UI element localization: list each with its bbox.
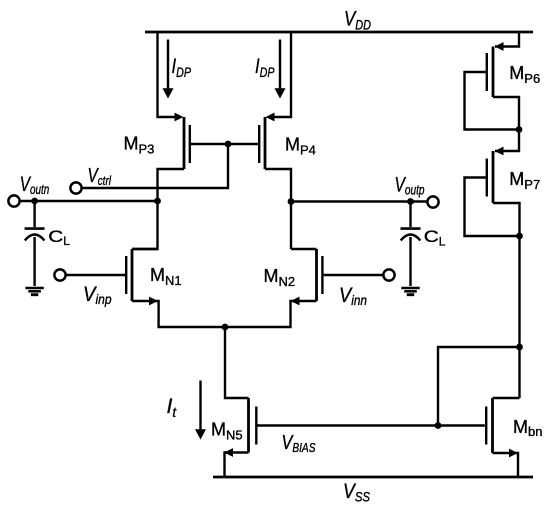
- current label IDP left: [172, 55, 192, 80]
- ground left: [25, 288, 43, 295]
- power rail VSS: [213, 476, 533, 479]
- transistor MN5: [224, 398, 256, 457]
- transistor MP6: [487, 42, 504, 97]
- label MP6: [509, 63, 540, 86]
- terminal Vinn: [383, 269, 394, 280]
- wire MP7 drain to Mbn drain: [493, 203, 520, 398]
- junction MP6 drain node: [516, 126, 523, 133]
- wire Mbn drain lead: [493, 397, 520, 399]
- wire MN2 drain lead: [291, 248, 317, 250]
- label MP7: [509, 169, 540, 192]
- junction Voutn-CL: [31, 198, 38, 205]
- label Voutp: [395, 174, 425, 198]
- label VBIAS: [282, 432, 317, 455]
- terminal Vctrl: [70, 182, 81, 193]
- wire MN2 source to tail: [225, 301, 317, 327]
- capacitor CL left: [25, 201, 45, 286]
- wire VBIAS MN5 gate to Mbn gate: [258, 424, 485, 426]
- capacitor CL right: [401, 202, 421, 287]
- value label CL left: [48, 228, 70, 248]
- label MN2: [264, 266, 296, 289]
- wire Vctrl to gates: [82, 144, 229, 188]
- junction MP7 drain node: [516, 233, 523, 240]
- wire MP4 drain to Voutp node: [265, 169, 291, 202]
- power rail VDD: [145, 31, 533, 34]
- wire MP3 gate to MP4 gate: [191, 143, 258, 145]
- wire tail to MN5 drain: [225, 327, 249, 398]
- label Vinp: [83, 283, 112, 307]
- wire VBIAS to Mbn drain: [438, 347, 520, 426]
- wire Voutp node to MN2 drain: [290, 202, 292, 250]
- wire Vinn to MN2 gate: [324, 274, 384, 276]
- wire Voutp rail: [291, 200, 428, 202]
- label Vctrl: [88, 165, 112, 188]
- wire Voutn rail: [19, 200, 157, 202]
- transistor MN1: [126, 249, 158, 305]
- junction Voutn-branch: [154, 198, 161, 205]
- wire MP6 drain: [493, 97, 519, 130]
- wire MP3 source to VDD: [158, 32, 176, 117]
- wire MP3 drain to Voutn node: [158, 169, 185, 201]
- label Mbn: [513, 417, 542, 439]
- label MN5: [211, 420, 243, 443]
- net label VDD: [344, 8, 371, 33]
- ground right: [401, 288, 419, 295]
- junction gates node: [225, 141, 232, 148]
- junction Voutp-CL: [407, 198, 414, 205]
- transistor MP4: [259, 113, 274, 169]
- current label IDP right: [255, 55, 275, 80]
- label MP3: [124, 134, 155, 157]
- label Vinn: [339, 284, 367, 308]
- wire MN1 drain lead: [132, 248, 158, 250]
- current arrow IDP right: [275, 40, 286, 99]
- junction Mbn drain link: [516, 344, 523, 351]
- junction tail node: [222, 324, 229, 331]
- wire MP6 source to VDD: [495, 32, 519, 47]
- transistor MP3: [175, 113, 190, 169]
- terminal Vinp: [54, 269, 65, 280]
- wire Mbn source to VSS: [493, 453, 519, 477]
- label MN1: [150, 265, 182, 288]
- wire MP7 source lead: [495, 130, 519, 152]
- current arrow IDP left: [163, 40, 174, 99]
- wire MN1 source to tail: [132, 301, 225, 327]
- junction VBIAS node: [435, 422, 442, 429]
- transistor Mbn: [486, 398, 518, 457]
- wire Vinp to MN1 gate: [65, 274, 125, 276]
- label MP4: [285, 135, 316, 158]
- wire Voutn node to MN1 drain: [132, 201, 158, 249]
- junction Voutp-branch: [288, 198, 295, 205]
- value label CL right: [424, 228, 446, 248]
- current arrow It: [195, 381, 206, 440]
- transistor MN2: [291, 249, 323, 305]
- wire MP7 gate loop: [465, 178, 520, 237]
- transistor MP7: [487, 147, 504, 203]
- net label VSS: [343, 480, 370, 505]
- wire MN5 source to VSS: [225, 453, 249, 478]
- wire MP4 source to VDD: [274, 32, 291, 117]
- terminal Voutp: [427, 196, 438, 207]
- label Voutn: [20, 173, 50, 197]
- wire MP6 gate loop: [465, 72, 520, 130]
- terminal Voutn: [8, 195, 19, 206]
- current label It: [167, 395, 178, 420]
